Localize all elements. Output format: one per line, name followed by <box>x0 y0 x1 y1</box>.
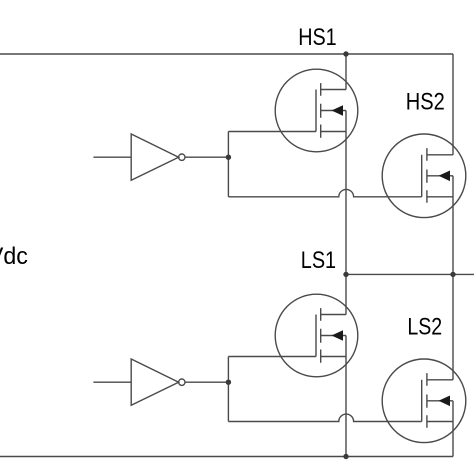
wire HS2 drain from bus <box>452 54 454 155</box>
HS2 gate bar <box>421 155 423 197</box>
wire HS1 source down to switch node <box>345 111 347 275</box>
wire HS1 drain from bus <box>345 54 347 90</box>
LS2 channel dashes <box>426 373 428 428</box>
LS2 body-diode arrow <box>439 396 451 407</box>
inverter U1 triangle <box>131 134 178 180</box>
HS1 body terminal <box>321 110 346 112</box>
wire HS2 source down to switch node <box>452 176 454 275</box>
inverter U2 (low-side gate driver) <box>93 357 421 422</box>
LS1 gate bar <box>315 315 317 357</box>
svg-text:LS2: LS2 <box>407 314 442 341</box>
LS2 gate bar <box>421 380 423 422</box>
node HS2/LS2 switch-node junction <box>450 272 455 277</box>
LS2 body terminal <box>427 400 453 402</box>
HS2 drain connection <box>427 154 453 156</box>
transistor HS1 (N-MOSFET) <box>275 69 358 152</box>
svg-text:Vdc: Vdc <box>0 243 28 270</box>
LS1 drain connection <box>321 314 346 316</box>
wire LS2 source to bottom bus <box>452 401 454 457</box>
transistor LS2 (N-MOSFET) <box>382 359 466 443</box>
transistor LS1 (N-MOSFET) <box>275 294 358 377</box>
HS1 body-diode arrow <box>332 105 344 116</box>
HS2 channel dashes <box>426 148 428 203</box>
LS1 channel dashes <box>320 308 322 363</box>
LS2 source connection <box>427 421 453 423</box>
inverter U2 bubble <box>179 379 185 385</box>
HS2 body-diode arrow <box>439 171 451 182</box>
LS1 source connection <box>321 356 346 358</box>
HS1 body circle <box>275 69 358 152</box>
HS2 source connection <box>427 196 453 198</box>
HS1 drain connection <box>321 89 346 91</box>
node LS1 source / bottom bus junction <box>343 454 348 459</box>
LS1 body terminal <box>321 335 346 337</box>
HS2 body terminal <box>427 175 453 177</box>
wire switch-node output line <box>346 273 474 275</box>
wire to LS1 gate <box>228 356 316 358</box>
wire LS1 source to bottom bus <box>345 336 347 457</box>
svg-text:HS2: HS2 <box>406 89 445 116</box>
wire bottom DC return bus <box>0 456 453 458</box>
svg-text:LS1: LS1 <box>301 247 336 274</box>
wire to LS2 gate with hop over LS1 source <box>228 414 421 421</box>
inverter U1 (high-side gate driver) <box>93 132 421 197</box>
wire top DC bus <box>0 53 453 55</box>
inverter U2 triangle <box>131 359 178 405</box>
HS1 channel dashes <box>320 83 322 138</box>
LS1 body circle <box>275 294 358 377</box>
wire LS2 drain from switch node <box>452 274 454 379</box>
wire U1 output branch vertical <box>227 132 229 197</box>
wire U1 input <box>93 156 131 158</box>
transistor HS2 (N-MOSFET) <box>382 134 466 218</box>
LS1 body-diode arrow <box>332 330 344 341</box>
wire to HS1 gate <box>228 131 316 133</box>
node U2 output junction <box>226 380 231 385</box>
HS2 body circle <box>382 134 466 218</box>
LS2 drain connection <box>427 379 453 381</box>
inverter U1 bubble <box>179 154 185 160</box>
svg-text:HS1: HS1 <box>298 24 337 51</box>
wire LS1 drain from switch node <box>345 274 347 314</box>
wire U2 input <box>93 381 131 383</box>
node LS1 switch-node junction <box>343 272 348 277</box>
wire to HS2 gate with hop over HS1 source <box>228 189 421 196</box>
HS1 source connection <box>321 131 346 133</box>
wire U2 output branch vertical <box>227 357 229 422</box>
wire U2 output <box>185 381 228 383</box>
LS2 body circle <box>382 359 466 443</box>
HS1 gate bar <box>315 90 317 132</box>
node HS1 drain / top bus junction <box>343 51 348 56</box>
wire U1 output <box>185 156 228 158</box>
node U1 output junction <box>226 155 231 160</box>
